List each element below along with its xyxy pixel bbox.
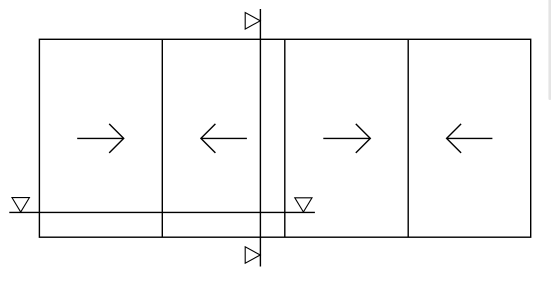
- datum line: [9, 211, 315, 213]
- section marker triangle top: [245, 13, 260, 30]
- mullion 1: [161, 39, 163, 237]
- mullion 2: [284, 39, 286, 237]
- section marker triangle bottom: [245, 247, 260, 263]
- datum level symbol left: [12, 198, 29, 212]
- arrow panel 1 (right): [77, 124, 124, 153]
- datum level symbol right: [295, 198, 312, 212]
- mullion 3: [407, 39, 409, 237]
- arrow panel 4 (left): [447, 124, 493, 153]
- scrollbar thumb right edge: [548, 0, 551, 100]
- arrow panel 2 (left): [201, 124, 247, 153]
- frame outline: [39, 39, 530, 237]
- section line: [259, 9, 261, 267]
- arrow panel 3 (right): [323, 124, 370, 153]
